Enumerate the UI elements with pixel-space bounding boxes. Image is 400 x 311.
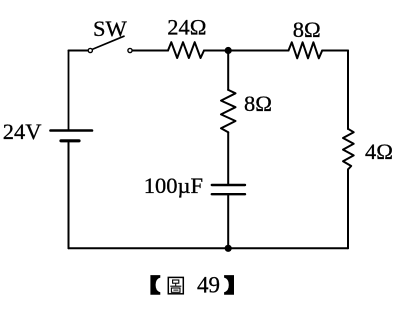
svg-text:24V: 24V [3,119,42,144]
svg-text:SW: SW [93,16,128,41]
svg-text:24Ω: 24Ω [167,15,206,40]
svg-text:49: 49 [197,273,220,298]
svg-text:8Ω: 8Ω [293,17,321,42]
svg-text:4Ω: 4Ω [365,139,393,164]
svg-text:100µF: 100µF [144,173,203,198]
svg-text:8Ω: 8Ω [244,91,272,116]
